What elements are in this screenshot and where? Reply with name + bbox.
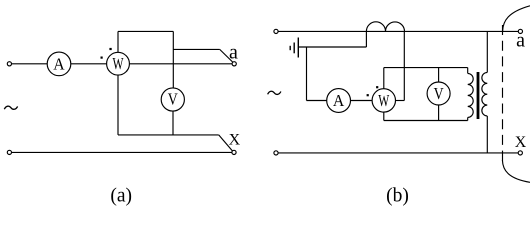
wire top line b (278, 30, 518, 32)
AC source tilde b (268, 91, 281, 94)
wattmeter W2 (372, 89, 395, 112)
test transformer winding arc bottom (502, 160, 530, 182)
svg-text:W: W (113, 54, 125, 73)
wire bottom line b (278, 152, 518, 154)
polarity dot wattmeter2 current (367, 94, 369, 96)
wire ammeter to wattmeter b (351, 100, 373, 102)
wire voltage bottom horizontal (384, 120, 468, 122)
wire wattmeter right stub (396, 100, 405, 102)
wire slant into terminal a (220, 49, 233, 62)
svg-text:A: A (333, 91, 345, 110)
wire slant into terminal X (219, 135, 233, 151)
wire CT right end down (403, 31, 405, 100)
wattmeter W1 current coil (107, 52, 130, 75)
node a terminal (232, 62, 236, 66)
wire right vertical to voltmeter (172, 31, 174, 88)
transformer core (477, 72, 480, 119)
ammeter A2 (327, 89, 351, 113)
svg-text:V: V (434, 84, 445, 103)
wire PT secondary bottom stub (467, 117, 469, 120)
wire wattmeter voltage up (383, 68, 385, 89)
wire PT primary bottom stem (486, 116, 488, 153)
wire wattmeter bottom down (117, 75, 119, 135)
svg-text:a: a (516, 30, 525, 52)
svg-text:A: A (53, 54, 65, 73)
wire bottom source line (12, 151, 232, 153)
wire wattmeter output to terminal a (129, 63, 232, 65)
node X terminal b (518, 151, 522, 155)
wire ammeter to wattmeter (71, 63, 107, 65)
AC source tilde (4, 106, 17, 109)
svg-text:X: X (229, 131, 241, 148)
wire voltmeter down (172, 111, 174, 135)
wire wattmeter bottom stub b (383, 112, 385, 120)
source terminal bottom-left (7, 150, 11, 154)
source terminal top-left (7, 62, 11, 66)
voltmeter V2 (427, 82, 450, 105)
svg-text:a: a (229, 42, 238, 64)
wire tap to terminal a (173, 48, 219, 50)
wire wattmeter voltage terminal up (117, 31, 119, 52)
wire ground horizontal (298, 46, 366, 48)
wire CT left end down to ground (365, 31, 367, 47)
wire source to ammeter (12, 63, 48, 65)
ammeter A1 (47, 52, 71, 76)
wire voltage top horizontal (384, 67, 468, 69)
voltage transformer TV secondary winding (468, 73, 474, 117)
wire down to ammeter loop (306, 47, 308, 101)
ground symbol (290, 38, 298, 58)
wire bottom branch horizontal (118, 134, 219, 136)
test transformer winding arc top (503, 6, 530, 31)
test transformer core dashed line (502, 25, 504, 161)
wire voltmeter top stub b (438, 68, 440, 82)
polarity dot wattmeter current (101, 57, 103, 59)
voltmeter V1 (161, 88, 184, 111)
svg-text:W: W (378, 91, 390, 110)
svg-text:X: X (515, 134, 527, 151)
svg-text:(b): (b) (386, 185, 409, 206)
source terminal top-left b (274, 29, 278, 33)
polarity dot wattmeter2 voltage (376, 86, 378, 88)
wire voltmeter bottom stub b (438, 105, 440, 121)
wire top horizontal (118, 30, 173, 32)
node X terminal (232, 150, 236, 154)
node a terminal b (518, 29, 522, 33)
wire corner into PT secondary top (467, 68, 469, 74)
wire PT primary top stem (486, 31, 488, 72)
svg-text:(a): (a) (110, 185, 132, 206)
source terminal bottom-left b (274, 151, 278, 155)
voltage transformer TV primary winding (482, 72, 487, 116)
current transformer TA winding (366, 22, 404, 32)
svg-text:V: V (168, 90, 179, 109)
wire to ammeter (307, 100, 327, 102)
polarity dot wattmeter voltage (109, 48, 111, 50)
